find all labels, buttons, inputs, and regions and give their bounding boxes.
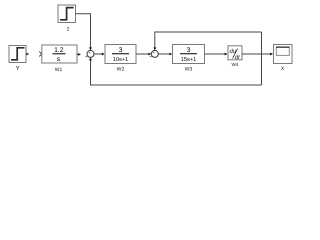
svg-text:1.2: 1.2 [54,47,64,54]
wire S1 to W2 [94,53,103,55]
wire W2 to sum junction S2 [136,53,149,55]
wire inner feedback top: J1 to S2 [155,32,262,49]
svg-text:2: 2 [67,27,70,33]
svg-text:Y: Y [16,66,20,72]
wire from block 2 to sum junction S1 [76,14,91,49]
node J1 (tap after W4) [261,32,263,85]
transfer function block W3 [173,45,205,64]
svg-text:15s+1: 15s+1 [181,57,196,63]
wire outer feedback bottom: J1 to S1 [91,59,262,85]
output port of W1 [77,53,81,56]
wire W4 to X [242,53,271,55]
wire W3 to W4 [205,53,226,55]
svg-text:10s+1: 10s+1 [113,57,128,63]
sum junction S1 [85,50,94,59]
transfer function block W1 [42,45,77,63]
svg-text:3: 3 [119,47,123,54]
svg-text:W2: W2 [117,67,125,73]
svg-text:s: s [57,56,61,63]
output port of Y [26,53,29,56]
wire S2 to W3 [158,53,170,55]
svg-text:W3: W3 [185,67,193,73]
step source block 2 [58,5,76,23]
svg-text:W1: W1 [55,67,63,73]
sum junction S2 [150,50,159,59]
svg-text:3: 3 [187,47,191,54]
step source block Y [9,46,26,63]
transfer function block W2 [105,45,136,64]
svg-text:W4: W4 [232,62,239,67]
svg-text:dt: dt [235,54,240,61]
input port of W1 [39,52,42,57]
derivative block W4 [228,46,242,61]
scope block X [274,45,293,64]
